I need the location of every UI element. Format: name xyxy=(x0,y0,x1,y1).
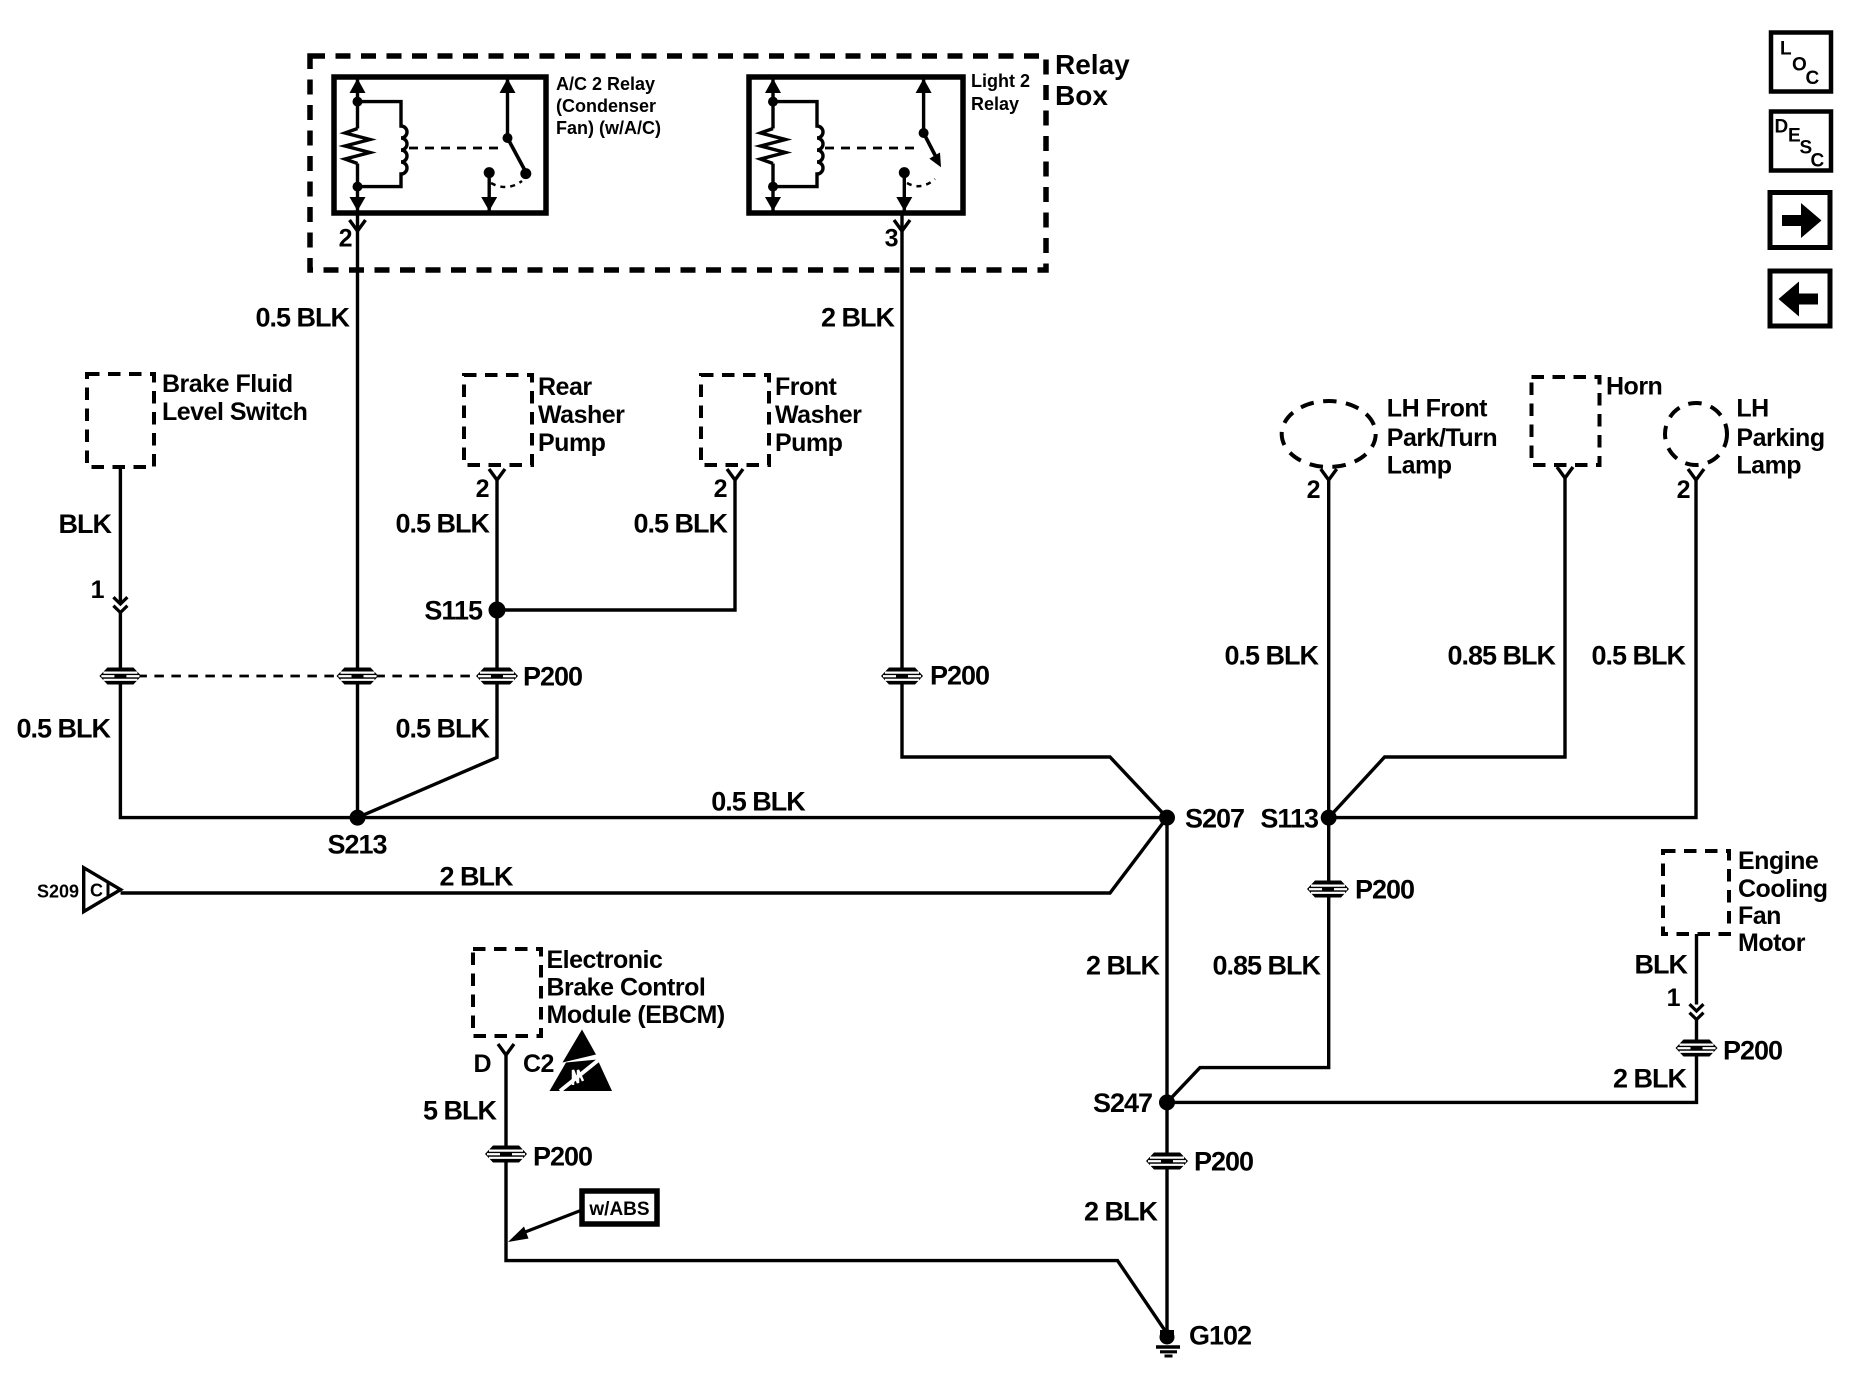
svg-text:Front: Front xyxy=(775,373,838,401)
svg-text:Washer: Washer xyxy=(538,401,625,429)
svg-text:P200: P200 xyxy=(930,661,989,691)
svg-text:Light 2: Light 2 xyxy=(971,71,1030,91)
svg-text:5 BLK: 5 BLK xyxy=(423,1096,498,1126)
relay K1 coil-switch dashed link xyxy=(409,147,501,150)
svg-text:2 BLK: 2 BLK xyxy=(439,862,514,892)
svg-text:Pump: Pump xyxy=(538,429,606,457)
splice S213 xyxy=(350,810,366,826)
wire: engine cooling fan motor upper xyxy=(1695,934,1698,1005)
relay K1 coil-side wire xyxy=(350,79,366,212)
splice S115 xyxy=(489,602,506,619)
svg-text:w/ABS: w/ABS xyxy=(588,1199,649,1220)
component: Engine Cooling Fan Motor xyxy=(1663,847,1828,957)
svg-text:C: C xyxy=(90,881,103,901)
wire: S115 branch to front washer pump xyxy=(497,479,735,610)
svg-text:Rear: Rear xyxy=(538,373,592,401)
grommet P200 on brake fluid wire xyxy=(99,668,141,685)
grommet P200 on EBCM wire xyxy=(485,1146,527,1163)
svg-text:0.5 BLK: 0.5 BLK xyxy=(1591,641,1686,671)
wire: S209 2 BLK bus to S207 xyxy=(121,818,1167,893)
svg-text:Engine: Engine xyxy=(1738,847,1819,875)
connector Y: Light relay pin 3 xyxy=(894,220,910,231)
relay K1: A/C 2 Relay (Condenser Fan) (w/A/C) xyxy=(334,74,661,213)
svg-text:D: D xyxy=(1775,117,1789,138)
grommet P200 on A/C relay wire xyxy=(337,668,379,685)
relay K2 resistor xyxy=(761,129,786,164)
connector Y: rear washer pump pin 2 xyxy=(489,469,505,480)
svg-text:2: 2 xyxy=(339,225,352,253)
wire: LH parking lamp to S113 xyxy=(1329,479,1696,818)
icon: DESC box xyxy=(1771,112,1831,172)
svg-text:0.85 BLK: 0.85 BLK xyxy=(1212,951,1321,981)
svg-text:Electronic: Electronic xyxy=(547,946,663,974)
svg-text:Fan) (w/A/C): Fan) (w/A/C) xyxy=(556,118,661,138)
connector Y: EBCM pin D xyxy=(498,1044,514,1055)
svg-text:2 BLK: 2 BLK xyxy=(1613,1064,1688,1094)
wire: engine cooling fan motor to S247 xyxy=(1167,1020,1697,1103)
svg-text:2: 2 xyxy=(476,475,489,503)
icon: back arrow box xyxy=(1770,271,1830,326)
wire: Light relay pin3 to S207 xyxy=(902,213,1167,818)
svg-text:Fan: Fan xyxy=(1738,902,1781,930)
terminal chevrons: brake fluid pin 1 xyxy=(113,597,127,612)
svg-text:P200: P200 xyxy=(523,662,582,692)
svg-text:2 BLK: 2 BLK xyxy=(821,303,896,333)
svg-text:Pump: Pump xyxy=(775,429,843,457)
svg-text:2: 2 xyxy=(1677,476,1690,504)
wire: brake fluid lower + long 0.5 BLK bus to S207 xyxy=(120,613,1167,818)
svg-text:Parking: Parking xyxy=(1736,424,1824,452)
connector Y: A/C relay pin 2 xyxy=(350,220,366,231)
svg-text:2: 2 xyxy=(1307,476,1320,504)
splice S207 xyxy=(1159,810,1175,826)
connector Y: front washer pump pin 2 xyxy=(727,469,743,480)
component: Electronic Brake Control Module (EBCM) xyxy=(473,946,725,1036)
svg-text:S115: S115 xyxy=(424,596,483,626)
svg-text:S113: S113 xyxy=(1260,804,1319,834)
grommet P200 on light relay wire xyxy=(881,668,923,685)
svg-text:LH Front: LH Front xyxy=(1387,395,1488,423)
svg-text:D: D xyxy=(473,1050,491,1078)
svg-text:0.5 BLK: 0.5 BLK xyxy=(16,714,111,744)
wire: brake fluid switch pin1 upper xyxy=(119,467,122,604)
svg-text:Lamp: Lamp xyxy=(1736,452,1801,480)
svg-text:Brake Control: Brake Control xyxy=(547,974,706,1002)
component: LH Front Park/Turn Lamp xyxy=(1282,395,1497,480)
grommet P200 on rear washer wire xyxy=(476,668,518,685)
ground G102 xyxy=(1156,1330,1180,1357)
svg-text:BLK: BLK xyxy=(1635,950,1689,980)
wire: S207 down to G102 xyxy=(1165,818,1168,1334)
relay box enclosure xyxy=(310,49,1130,270)
svg-text:(Condenser: (Condenser xyxy=(556,96,656,116)
svg-text:2 BLK: 2 BLK xyxy=(1086,951,1161,981)
svg-text:BLK: BLK xyxy=(59,509,113,539)
component: LH Parking Lamp xyxy=(1665,395,1825,480)
svg-text:Park/Turn: Park/Turn xyxy=(1387,424,1497,452)
svg-text:S207: S207 xyxy=(1185,804,1244,834)
wire: horn to S113 xyxy=(1329,477,1565,818)
relay K2 coil-switch dashed link xyxy=(825,147,916,150)
svg-text:A/C 2 Relay: A/C 2 Relay xyxy=(556,74,655,94)
callout w/ABS with arrow xyxy=(508,1191,657,1242)
svg-text:Brake Fluid: Brake Fluid xyxy=(162,370,293,398)
svg-text:0.5 BLK: 0.5 BLK xyxy=(395,714,490,744)
component: Rear Washer Pump xyxy=(464,373,625,465)
connector Y: LH parking lamp pin 2 xyxy=(1688,469,1704,480)
svg-text:1: 1 xyxy=(91,576,105,604)
splice S113 xyxy=(1321,810,1337,826)
svg-text:0.5 BLK: 0.5 BLK xyxy=(1224,641,1319,671)
grommet P200 below S247 xyxy=(1146,1153,1188,1170)
svg-text:1: 1 xyxy=(1667,984,1681,1012)
svg-text:Level Switch: Level Switch xyxy=(162,398,307,426)
connector Y: LH front park/turn lamp pin 2 xyxy=(1321,469,1337,480)
svg-text:P200: P200 xyxy=(1355,875,1414,905)
svg-text:Motor: Motor xyxy=(1738,929,1806,957)
wire: LH front park/turn lamp through S113 to S247 xyxy=(1167,479,1329,1102)
svg-text:Lamp: Lamp xyxy=(1387,452,1452,480)
svg-text:0.5 BLK: 0.5 BLK xyxy=(255,303,350,333)
svg-text:Washer: Washer xyxy=(775,401,862,429)
relay K1 coil xyxy=(358,102,408,187)
svg-text:3: 3 xyxy=(885,225,898,253)
wire: rear washer pump to S213 xyxy=(358,479,498,818)
icon: forward arrow box xyxy=(1770,193,1830,248)
relay K2 coil-side wire xyxy=(765,79,781,212)
splice S247 xyxy=(1159,1094,1175,1110)
grommet P200 on engine fan wire xyxy=(1676,1040,1718,1057)
relay K2 coil xyxy=(773,102,823,187)
svg-text:P200: P200 xyxy=(1194,1147,1253,1177)
dashed tie line through P200 grommets xyxy=(120,675,497,678)
svg-text:Relay: Relay xyxy=(971,94,1019,114)
relay K2 switch xyxy=(896,79,941,212)
svg-text:Module (EBCM): Module (EBCM) xyxy=(547,1001,725,1029)
terminal chevrons: engine fan pin 1 xyxy=(1690,1004,1704,1019)
svg-text:C: C xyxy=(1806,68,1820,89)
component: Horn xyxy=(1532,373,1663,465)
svg-text:C: C xyxy=(1811,151,1825,172)
relay K1 switch xyxy=(481,79,531,212)
svg-text:0.5 BLK: 0.5 BLK xyxy=(711,787,806,817)
component: Front Washer Pump xyxy=(701,373,862,465)
connector Y: horn xyxy=(1557,467,1573,478)
splice reference S209 triangle with C xyxy=(84,868,121,912)
ESD static-sensitive symbol xyxy=(550,1030,613,1092)
relay K2: Light 2 Relay xyxy=(749,71,1030,213)
svg-text:0.5 BLK: 0.5 BLK xyxy=(395,509,490,539)
svg-text:S213: S213 xyxy=(327,830,387,860)
icon: LOC box xyxy=(1771,33,1831,92)
svg-text:S247: S247 xyxy=(1093,1088,1152,1118)
relay K1 resistor xyxy=(345,129,370,164)
svg-text:C2: C2 xyxy=(523,1050,554,1078)
component: Brake Fluid Level Switch xyxy=(87,370,307,467)
svg-text:Cooling: Cooling xyxy=(1738,875,1828,903)
svg-text:P200: P200 xyxy=(533,1142,592,1172)
svg-text:Relay: Relay xyxy=(1055,49,1130,80)
wire: A/C relay pin2 to S213 xyxy=(356,213,359,818)
grommet P200 below S113 xyxy=(1307,881,1349,898)
svg-text:L: L xyxy=(1780,39,1792,60)
svg-text:Box: Box xyxy=(1055,80,1108,111)
svg-text:Horn: Horn xyxy=(1606,373,1662,401)
svg-text:2: 2 xyxy=(714,475,727,503)
wire: EBCM pin D ground path to G102 xyxy=(506,1054,1167,1334)
svg-text:G102: G102 xyxy=(1189,1321,1251,1351)
svg-text:S209: S209 xyxy=(37,882,79,902)
svg-text:P200: P200 xyxy=(1723,1036,1782,1066)
svg-text:0.5 BLK: 0.5 BLK xyxy=(633,509,728,539)
svg-text:0.85 BLK: 0.85 BLK xyxy=(1447,641,1556,671)
svg-text:LH: LH xyxy=(1736,395,1768,423)
svg-text:2 BLK: 2 BLK xyxy=(1084,1197,1159,1227)
